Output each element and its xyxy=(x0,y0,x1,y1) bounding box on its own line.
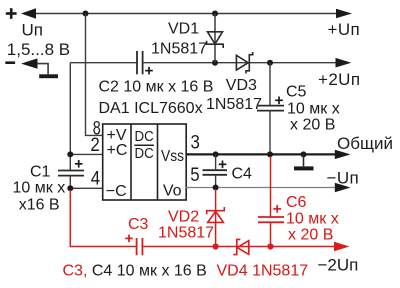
node pin2 xyxy=(67,151,73,157)
node VD1 top xyxy=(212,11,218,17)
plus terminal sign xyxy=(6,8,17,19)
wire C4 bottom xyxy=(215,175,217,188)
svg-text:х 20 В: х 20 В xyxy=(290,117,335,134)
svg-text:Общий: Общий xyxy=(337,134,393,153)
wire pin8 vert xyxy=(86,14,103,136)
wire pin2 xyxy=(70,153,102,155)
wire C6 bottom red xyxy=(270,222,272,246)
svg-text:C6: C6 xyxy=(286,194,307,211)
svg-text:VD3: VD3 xyxy=(226,77,257,94)
C2 plus sign xyxy=(145,67,153,75)
arrow -Un xyxy=(335,183,351,192)
svg-text:10 мк х: 10 мк х xyxy=(13,179,66,196)
svg-text:Vo: Vo xyxy=(163,183,182,200)
IC DA1 ICL7660 box xyxy=(103,124,187,200)
svg-text:х16 В: х16 В xyxy=(19,197,60,214)
node VD3 cathode / C5 top xyxy=(267,60,273,66)
arrow input minus xyxy=(21,58,38,68)
capacitor C2 xyxy=(137,51,143,74)
svg-text:10 мк х: 10 мк х xyxy=(287,101,340,118)
node C4 top xyxy=(213,151,219,157)
svg-text:3: 3 xyxy=(191,133,200,154)
capacitor C4 xyxy=(203,170,228,175)
svg-text:VD1: VD1 xyxy=(168,21,199,38)
svg-text:4: 4 xyxy=(91,169,101,190)
svg-text:+2Uп: +2Uп xyxy=(318,70,360,89)
node ground right xyxy=(301,151,307,157)
svg-text:х 20 В: х 20 В xyxy=(288,227,333,244)
wire pin4 xyxy=(70,187,102,189)
svg-text:−C: −C xyxy=(106,183,127,200)
diode VD4 xyxy=(233,239,249,254)
wire rail2 right xyxy=(143,62,336,64)
wire VD2 vertical red xyxy=(215,189,217,247)
C5 plus sign xyxy=(275,97,283,105)
C6 plus sign xyxy=(273,205,281,213)
ground left xyxy=(39,74,58,78)
node C6 bottom red xyxy=(267,243,273,249)
svg-text:C3, C4 10 мк х 16 В: C3, C4 10 мк х 16 В xyxy=(63,263,207,280)
wire C4 top xyxy=(215,154,217,170)
wire VD1 vertical xyxy=(214,14,216,63)
node C4 bottom / VD2 top xyxy=(213,185,219,191)
svg-text:+C: +C xyxy=(107,142,128,159)
IC fraction bar xyxy=(134,144,154,146)
wire C5 top xyxy=(269,63,271,106)
svg-text:C1: C1 xyxy=(30,164,51,181)
capacitor C6 xyxy=(258,217,284,222)
wire minus stub xyxy=(38,64,49,75)
arrow -2Un red xyxy=(334,242,350,251)
svg-text:1,5...8 В: 1,5...8 В xyxy=(7,40,70,59)
capacitor C5 xyxy=(257,106,284,111)
wire left vert to pins xyxy=(69,63,71,171)
svg-text:C5: C5 xyxy=(286,84,307,101)
node pin4 xyxy=(67,185,73,191)
node C5 bottom xyxy=(267,151,273,157)
wire pin4 to bottom rail red xyxy=(70,190,136,247)
arrow +2Un xyxy=(336,58,352,68)
arrow +Un xyxy=(336,9,352,19)
diode VD1 xyxy=(207,32,224,48)
node top-left junction xyxy=(83,11,89,17)
wire obshiy rail xyxy=(186,153,337,155)
C3 plus sign xyxy=(125,235,133,243)
capacitor C3 xyxy=(137,238,143,255)
wire rail2 left xyxy=(70,62,137,64)
svg-text:C3: C3 xyxy=(128,216,149,233)
wire -Un rail xyxy=(186,187,337,189)
svg-text:+Uп: +Uп xyxy=(328,20,361,39)
diode VD2 xyxy=(207,207,225,222)
svg-text:C4: C4 xyxy=(232,166,253,183)
svg-text:2: 2 xyxy=(90,135,99,156)
C1 plus sign xyxy=(75,160,83,168)
node VD1 bottom xyxy=(212,60,218,66)
node VD2 bottom red xyxy=(213,243,219,249)
svg-text:VD4 1N5817: VD4 1N5817 xyxy=(217,263,309,280)
arrow input plus xyxy=(21,8,36,18)
svg-text:1N5817: 1N5817 xyxy=(151,40,207,57)
svg-text:C2 10 мк х 16 В: C2 10 мк х 16 В xyxy=(99,79,214,96)
svg-text:Vss: Vss xyxy=(161,148,184,165)
svg-text:DC: DC xyxy=(135,128,154,145)
svg-text:5: 5 xyxy=(190,165,199,186)
svg-text:1N5817: 1N5817 xyxy=(158,225,214,242)
wire top rail xyxy=(36,13,337,15)
svg-text:10 мк х: 10 мк х xyxy=(286,211,339,228)
wire bottom rail red xyxy=(142,246,335,248)
minus terminal sign xyxy=(5,61,15,64)
svg-text:Uп: Uп xyxy=(22,21,43,40)
wire C1 bottom xyxy=(69,176,71,189)
svg-text:1N5817: 1N5817 xyxy=(206,96,262,113)
diode VD3 xyxy=(236,52,252,74)
C4 plus sign xyxy=(219,161,227,169)
svg-text:−2Uп: −2Uп xyxy=(318,256,359,275)
capacitor C1 xyxy=(58,171,84,176)
wire C6 top red xyxy=(270,156,272,217)
ground right xyxy=(303,154,305,166)
svg-text:−Uп: −Uп xyxy=(327,169,360,188)
arrow obshiy xyxy=(335,150,351,159)
svg-text:DA1 ICL7660x: DA1 ICL7660x xyxy=(99,100,203,117)
wire C5 bottom xyxy=(269,111,271,155)
svg-text:DC: DC xyxy=(135,145,154,162)
svg-text:VD2: VD2 xyxy=(168,209,199,226)
